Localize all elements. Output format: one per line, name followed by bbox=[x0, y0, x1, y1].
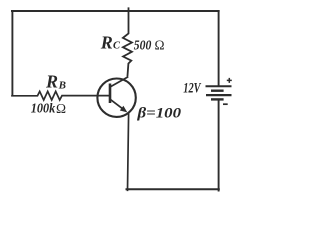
svg-text:C: C bbox=[113, 41, 121, 52]
svg-text:R: R bbox=[45, 72, 58, 92]
svg-text:Ω: Ω bbox=[56, 101, 66, 116]
svg-text:12V: 12V bbox=[183, 80, 202, 96]
svg-text:R: R bbox=[100, 32, 113, 52]
svg-text:100k: 100k bbox=[31, 102, 56, 117]
svg-text:500: 500 bbox=[134, 39, 152, 54]
svg-text:B: B bbox=[58, 79, 66, 91]
svg-text:β=100: β=100 bbox=[136, 105, 181, 121]
svg-text:Ω: Ω bbox=[155, 38, 165, 53]
